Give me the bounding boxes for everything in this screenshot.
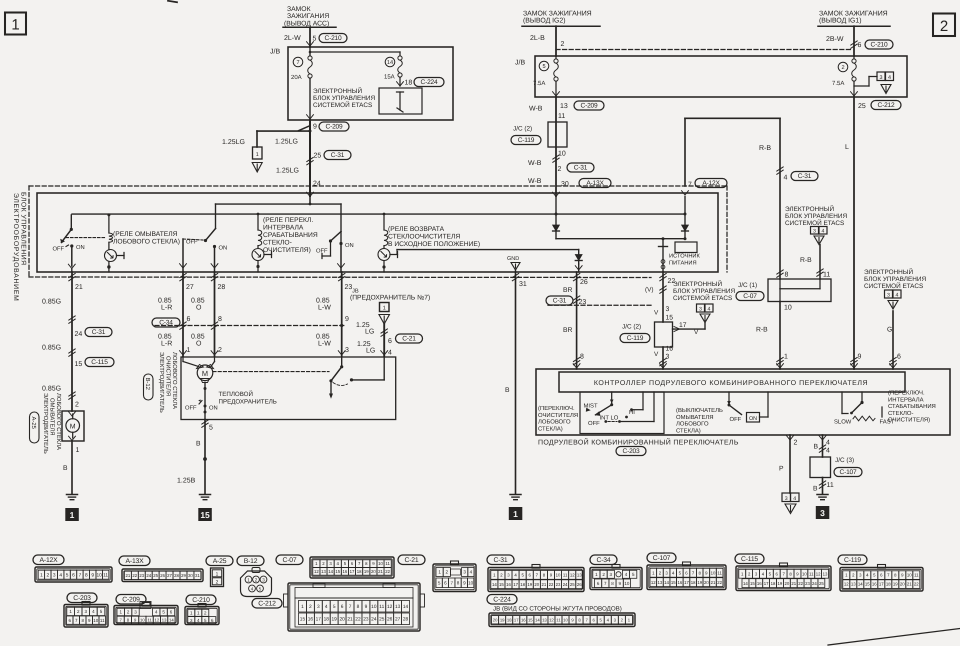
svg-text:4: 4 (888, 75, 891, 81)
svg-text:31: 31 (195, 573, 200, 578)
svg-text:8: 8 (218, 316, 222, 323)
svg-text:6: 6 (858, 42, 862, 49)
svg-text:18: 18 (324, 617, 330, 623)
svg-text:22: 22 (798, 581, 803, 586)
svg-text:C-224: C-224 (421, 79, 438, 86)
svg-text:17: 17 (679, 322, 687, 329)
svg-text:ЛОБОВОГО СТЕКЛА: ЛОБОВОГО СТЕКЛА (171, 352, 178, 409)
svg-text:25: 25 (314, 153, 322, 160)
svg-text:ЭЛЕКТРОДВИГАТЕЛЬ: ЭЛЕКТРОДВИГАТЕЛЬ (158, 352, 165, 413)
svg-text:B: B (196, 441, 201, 448)
connector C-21 (398, 555, 476, 592)
svg-text:1: 1 (187, 347, 191, 354)
svg-text:16: 16 (666, 346, 674, 353)
ETACS ground above J/C(1) (785, 205, 847, 245)
svg-text:17: 17 (879, 582, 884, 587)
connector C-119 bottom (838, 555, 923, 591)
svg-text:ТЕПЛОВОЙ: ТЕПЛОВОЙ (219, 390, 253, 398)
column switch outer box (536, 369, 950, 435)
svg-text:C-31: C-31 (574, 164, 588, 171)
svg-text:21: 21 (347, 617, 353, 623)
wire L pin 9 entry (851, 354, 862, 369)
svg-text:27: 27 (395, 617, 401, 623)
svg-text:1: 1 (76, 447, 80, 454)
svg-text:ON: ON (76, 244, 85, 251)
svg-text:6: 6 (187, 316, 191, 323)
svg-text:20: 20 (339, 617, 345, 623)
svg-text:C-224: C-224 (493, 596, 511, 603)
svg-text:23: 23 (579, 299, 587, 306)
svg-text:19: 19 (332, 617, 338, 623)
fuse 14 15A (384, 56, 402, 81)
svg-text:1: 1 (438, 570, 441, 575)
ground ref black 1 mid (509, 507, 523, 520)
svg-text:6: 6 (897, 354, 901, 361)
svg-text:O: O (196, 341, 202, 348)
svg-text:13: 13 (560, 103, 568, 110)
pin 4 connector C-31 on R-B (777, 167, 818, 182)
svg-text:4: 4 (59, 573, 62, 579)
wiper motor assembly box (181, 357, 396, 420)
svg-text:(ПЕРЕКЛЮЧ.: (ПЕРЕКЛЮЧ. (538, 405, 575, 412)
connector C-224 strip (487, 595, 635, 627)
pin 5 connector C-210 (313, 34, 348, 43)
svg-text:W-B: W-B (528, 178, 542, 185)
node ignition switch ACC header (283, 6, 336, 27)
svg-text:17: 17 (316, 617, 322, 623)
wire B washer motor to ground (63, 441, 80, 494)
junction block J/B left (270, 47, 453, 120)
svg-text:C-31: C-31 (553, 297, 567, 304)
svg-text:13: 13 (658, 580, 663, 585)
svg-text:ЗАМОК ЗАЖИГАНИЯ: ЗАМОК ЗАЖИГАНИЯ (523, 11, 592, 18)
svg-text:13: 13 (851, 582, 856, 587)
svg-text:2: 2 (309, 604, 312, 610)
svg-text:4: 4 (822, 229, 825, 235)
svg-text:(РЕЛЕ ОМЫВАТЕЛЯ: (РЕЛЕ ОМЫВАТЕЛЯ (113, 231, 178, 238)
svg-text:23: 23 (139, 573, 144, 578)
svg-text:14: 14 (858, 582, 863, 587)
svg-text:19: 19 (527, 582, 532, 587)
svg-text:ЛОБОВОГО СТЕКЛА: ЛОБОВОГО СТЕКЛА (55, 393, 62, 450)
svg-text:10: 10 (624, 581, 630, 586)
fusible link 1 (252, 147, 262, 172)
svg-text:A-13X: A-13X (586, 180, 604, 187)
svg-text:22: 22 (914, 582, 919, 587)
svg-text:J/B: J/B (515, 59, 525, 67)
svg-text:ЛОБОВОГО: ЛОБОВОГО (676, 421, 709, 428)
svg-text:C-31: C-31 (494, 557, 508, 564)
svg-text:9: 9 (91, 573, 94, 579)
ground J/C(3) chain (817, 495, 828, 500)
interval switch label (888, 390, 936, 424)
pin 18 connector C-224 (397, 77, 444, 86)
svg-text:(V): (V) (645, 287, 654, 294)
svg-text:C-209: C-209 (581, 102, 598, 109)
wire 2B-W IG1 (826, 26, 857, 56)
svg-text:18: 18 (507, 617, 512, 622)
svg-text:24: 24 (371, 617, 377, 623)
svg-text:1: 1 (247, 578, 250, 583)
svg-text:10: 10 (802, 571, 807, 576)
connector B-12 round (237, 556, 282, 608)
svg-text:26: 26 (577, 582, 582, 587)
svg-text:ЗАЖИГАНИЯ: ЗАЖИГАНИЯ (287, 13, 329, 20)
svg-text:3: 3 (317, 604, 320, 610)
wire 26 BR to controller pin 8 (546, 272, 588, 369)
svg-text:22: 22 (132, 573, 137, 578)
svg-text:L-W: L-W (318, 305, 331, 312)
svg-text:ПИТАНИЯ: ПИТАНИЯ (669, 261, 697, 267)
node ignition switch IG2 header (522, 11, 600, 27)
svg-text:11: 11 (717, 570, 722, 575)
svg-text:БЛОК УПРАВЛЕНИЯ: БЛОК УПРАВЛЕНИЯ (785, 213, 847, 220)
svg-text:10: 10 (563, 617, 568, 622)
svg-text:M: M (70, 424, 76, 431)
svg-text:13: 13 (162, 617, 167, 622)
svg-text:20: 20 (900, 582, 905, 587)
svg-text:12: 12 (816, 571, 821, 576)
svg-text:20A: 20A (291, 74, 302, 81)
svg-text:7: 7 (296, 60, 299, 66)
svg-text:16: 16 (342, 569, 347, 574)
svg-text:1: 1 (70, 510, 75, 520)
svg-text:ON: ON (345, 242, 354, 249)
svg-text:17: 17 (513, 582, 518, 587)
wiper motor M2 (183, 357, 215, 420)
wire 2L-B IG2 (530, 26, 565, 56)
svg-text:ИНТЕРВАЛА: ИНТЕРВАЛА (263, 225, 304, 232)
scan artifact diagonal line (828, 629, 960, 646)
svg-text:C-34: C-34 (159, 319, 173, 326)
svg-text:4: 4 (826, 440, 830, 447)
svg-text:C-107: C-107 (840, 469, 857, 476)
svg-text:21: 21 (75, 284, 83, 291)
svg-text:ОЧИСТИТЕЛЯ: ОЧИСТИТЕЛЯ (538, 412, 578, 419)
svg-text:24: 24 (812, 581, 817, 586)
washer motor M1 (62, 411, 84, 441)
pin 7 connector A-12X (682, 179, 727, 196)
svg-text:13: 13 (823, 571, 828, 576)
svg-text:11: 11 (379, 604, 384, 610)
svg-text:24: 24 (146, 573, 151, 578)
svg-text:ОМЫВАТЕЛЯ: ОМЫВАТЕЛЯ (676, 414, 714, 421)
svg-text:C-21: C-21 (402, 335, 416, 342)
ground ref black 1 left (65, 508, 79, 521)
op ETACS unit label left (313, 87, 375, 109)
svg-text:10: 10 (907, 573, 912, 578)
svg-text:11: 11 (914, 573, 919, 578)
svg-text:СТЕКЛА): СТЕКЛА) (676, 427, 701, 434)
svg-text:21: 21 (378, 569, 383, 574)
svg-text:A-13X: A-13X (126, 558, 145, 565)
washer switch label (676, 407, 723, 434)
svg-text:B: B (813, 486, 818, 493)
ground B wire (510, 495, 521, 500)
svg-text:0.85: 0.85 (316, 298, 330, 305)
svg-text:21: 21 (791, 581, 796, 586)
wire A-12X leg with diode D2 (682, 197, 689, 241)
svg-text:L-R: L-R (161, 341, 172, 348)
wire branch to fuse link 1 (222, 130, 312, 148)
svg-text:17: 17 (514, 617, 519, 622)
connector C-115 bottom (735, 554, 831, 591)
svg-text:6: 6 (388, 338, 392, 345)
svg-text:В ИСХОДНОЕ ПОЛОЖЕНИЕ): В ИСХОДНОЕ ПОЛОЖЕНИЕ) (388, 241, 480, 248)
fuse 7 20A (291, 47, 312, 120)
svg-text:23: 23 (363, 617, 369, 623)
svg-text:B-12: B-12 (144, 378, 151, 390)
svg-text:V: V (654, 310, 659, 317)
svg-text:C-210: C-210 (192, 597, 210, 604)
svg-text:12: 12 (651, 580, 656, 585)
svg-text:29: 29 (181, 573, 186, 578)
svg-text:16: 16 (308, 617, 314, 623)
svg-text:C-115: C-115 (741, 556, 758, 563)
svg-text:БЛОК УПРАВЛЕНИЯ: БЛОК УПРАВЛЕНИЯ (673, 288, 735, 295)
svg-text:28: 28 (174, 573, 179, 578)
svg-text:C-210: C-210 (325, 35, 342, 42)
connector A-13X (119, 556, 203, 582)
pin 2 connector C-31 mid (528, 155, 594, 173)
svg-text:C-119: C-119 (844, 557, 861, 564)
washer motor vertical label (30, 393, 63, 454)
svg-text:18: 18 (691, 580, 696, 585)
wire 21 0.85G washer motor feed (42, 272, 114, 411)
wire 5 B to ground (177, 420, 213, 495)
connector C-210 bottom (185, 595, 219, 625)
svg-text:1: 1 (513, 509, 518, 519)
svg-text:10: 10 (378, 561, 383, 566)
thermal fuse (185, 387, 277, 414)
svg-text:0.85G: 0.85G (42, 299, 61, 306)
svg-text:7: 7 (79, 573, 82, 579)
wiper mode switch MIST (580, 392, 664, 434)
svg-text:4: 4 (325, 604, 328, 610)
connector A-12X (33, 555, 112, 582)
svg-text:2L-W: 2L-W (284, 35, 301, 42)
svg-text:10: 10 (468, 580, 474, 585)
svg-text:24: 24 (75, 331, 83, 338)
svg-text:A-25: A-25 (213, 558, 227, 565)
svg-text:13: 13 (577, 573, 582, 578)
svg-text:C-107: C-107 (653, 555, 671, 562)
svg-text:0.85G: 0.85G (42, 386, 61, 393)
connector C-34 bottom (590, 555, 642, 590)
svg-text:7: 7 (450, 580, 453, 585)
svg-text:ИСТОЧНИК: ИСТОЧНИК (669, 254, 701, 260)
pin 25 connector C-212 (851, 92, 901, 110)
svg-text:14: 14 (169, 617, 174, 622)
svg-text:2: 2 (841, 65, 844, 71)
svg-text:10: 10 (140, 617, 145, 622)
svg-text:3: 3 (666, 306, 670, 313)
svg-text:OFF: OFF (588, 420, 600, 427)
svg-text:1: 1 (256, 152, 259, 158)
pin 10 label (558, 151, 566, 158)
relay intermittent switch SW2 (180, 229, 228, 273)
svg-text:1: 1 (40, 573, 43, 579)
svg-text:8: 8 (357, 604, 360, 610)
svg-text:10: 10 (371, 604, 377, 610)
svg-text:11: 11 (556, 617, 561, 622)
svg-text:R-B: R-B (756, 327, 768, 334)
svg-text:25: 25 (819, 581, 824, 586)
wire diode output bus y238.7 (556, 237, 685, 240)
svg-text:(ПЕРЕКЛЮЧ.: (ПЕРЕКЛЮЧ. (888, 390, 925, 397)
ground GND inside relay box (507, 256, 520, 272)
svg-text:14: 14 (387, 60, 393, 66)
svg-text:C-210: C-210 (871, 41, 888, 48)
wire 1.25LG lower (276, 168, 321, 188)
wire 31 B body ground (505, 272, 527, 494)
svg-text:A-25: A-25 (30, 417, 37, 430)
svg-text:СИСТЕМОЙ ETACS: СИСТЕМОЙ ETACS (673, 294, 732, 302)
svg-text:1.25LG: 1.25LG (222, 139, 245, 146)
svg-text:C-07: C-07 (283, 557, 297, 564)
ETACS ground 3-4 inside J/B (854, 72, 894, 94)
svg-text:11: 11 (385, 561, 390, 566)
svg-text:1.25B: 1.25B (177, 478, 196, 485)
svg-text:20: 20 (704, 580, 709, 585)
svg-text:27: 27 (167, 573, 172, 578)
svg-text:19: 19 (893, 582, 898, 587)
svg-text:СИСТЕМОЙ ETACS: СИСТЕМОЙ ETACS (785, 219, 844, 227)
wire 10 R-B to controller pin 1 (756, 302, 792, 370)
svg-text:14: 14 (664, 580, 669, 585)
svg-text:СТЕКЛООЧИСТИТЕЛЯ: СТЕКЛООЧИСТИТЕЛЯ (388, 234, 460, 241)
svg-text:1: 1 (11, 17, 19, 34)
svg-text:9: 9 (858, 354, 862, 361)
svg-text:ЭЛЕКТРОННЫЙ: ЭЛЕКТРОННЫЙ (785, 205, 834, 213)
svg-text:ЛОБОВОГО: ЛОБОВОГО (538, 419, 571, 426)
relay park-return coil K3 (378, 213, 398, 272)
wiper park switch (329, 357, 384, 399)
wire branch to fuse 14 (309, 51, 400, 56)
svg-text:ON: ON (209, 405, 218, 412)
svg-text:ПРЕДОХРАНИТЕЛЬ: ПРЕДОХРАНИТЕЛЬ (219, 399, 277, 406)
svg-text:20: 20 (493, 617, 498, 622)
svg-text:M: M (202, 369, 208, 378)
svg-text:L: L (845, 144, 849, 151)
svg-text:15: 15 (335, 569, 340, 574)
svg-text:5: 5 (333, 604, 336, 610)
relay park-return switch SW3 (316, 232, 354, 273)
svg-text:КОНТРОЛЛЕР ПОДРУЛЕВОГО КОМБИНИ: КОНТРОЛЛЕР ПОДРУЛЕВОГО КОМБИНИРОВАННОГО … (594, 380, 868, 387)
connector C-07 (276, 555, 394, 578)
svg-text:31: 31 (519, 281, 527, 288)
svg-text:4: 4 (793, 496, 796, 502)
svg-text:9: 9 (365, 604, 368, 610)
svg-text:20: 20 (534, 582, 539, 587)
svg-text:BR: BR (563, 327, 573, 334)
svg-text:22: 22 (355, 617, 361, 623)
wire R-B inverted U (685, 118, 780, 279)
svg-text:3: 3 (463, 570, 466, 575)
svg-text:C-119: C-119 (627, 335, 644, 342)
node ignition switch IG1 header (818, 11, 890, 27)
wiper motor dashed link (213, 371, 329, 373)
svg-text:3: 3 (813, 229, 816, 235)
svg-text:(ВЫВОД IG1): (ВЫВОД IG1) (819, 18, 862, 25)
svg-text:15: 15 (300, 617, 306, 623)
svg-text:(РЕЛЕ ВОЗВРАТА: (РЕЛЕ ВОЗВРАТА (388, 226, 445, 233)
connector C-34 dashed crossing (152, 318, 345, 327)
relay washer coil K1 (105, 213, 125, 272)
svg-text:20: 20 (784, 581, 789, 586)
svg-text:ЭЛЕКТРОННЫЙ: ЭЛЕКТРОННЫЙ (313, 87, 362, 95)
svg-text:15: 15 (666, 315, 674, 322)
svg-text:10: 10 (556, 573, 561, 578)
wire 2 P to ground (779, 435, 799, 514)
svg-text:2: 2 (558, 166, 562, 173)
svg-text:14: 14 (743, 581, 748, 586)
svg-text:7: 7 (688, 182, 692, 189)
svg-text:2: 2 (218, 347, 222, 354)
svg-text:13: 13 (321, 569, 326, 574)
pin 9 connector C-209 (307, 115, 349, 131)
svg-text:B: B (505, 387, 510, 394)
svg-text:1: 1 (784, 354, 788, 361)
svg-text:11: 11 (147, 617, 152, 622)
relay intermittent label (263, 217, 318, 254)
svg-text:25: 25 (570, 582, 575, 587)
svg-text:C-31: C-31 (92, 329, 106, 336)
svg-text:C-209: C-209 (326, 123, 343, 130)
svg-text:J/C (2): J/C (2) (513, 126, 532, 133)
svg-text:2: 2 (940, 18, 948, 35)
svg-text:22: 22 (549, 582, 554, 587)
svg-text:19: 19 (500, 617, 505, 622)
svg-text:6: 6 (72, 573, 75, 579)
washer switch (727, 392, 768, 423)
svg-text:C-31: C-31 (331, 152, 345, 159)
wire pin 3 to controller (654, 346, 673, 370)
svg-text:19: 19 (697, 580, 702, 585)
svg-text:16: 16 (677, 580, 682, 585)
svg-text:10: 10 (558, 151, 566, 158)
svg-text:ЈВ (ВИД СО СТОРОНЫ ЖГУТА ПРОВО: ЈВ (ВИД СО СТОРОНЫ ЖГУТА ПРОВОДОВ) (493, 606, 622, 613)
svg-text:15A: 15A (384, 74, 395, 81)
svg-text:16: 16 (506, 582, 511, 587)
connector C-31 bottom (487, 555, 584, 592)
svg-text:B: B (814, 444, 819, 451)
svg-text:19: 19 (364, 569, 369, 574)
relay intermittent coil K2 (252, 213, 272, 272)
svg-text:P: P (779, 466, 784, 473)
svg-text:23: 23 (556, 582, 561, 587)
svg-text:15: 15 (750, 581, 755, 586)
svg-text:4: 4 (251, 587, 254, 592)
wire G to controller pin 6 (887, 311, 901, 369)
svg-text:2: 2 (561, 41, 565, 48)
svg-text:17: 17 (764, 581, 769, 586)
svg-text:3: 3 (880, 75, 883, 81)
svg-text:MIST: MIST (584, 403, 598, 410)
svg-text:3: 3 (785, 496, 788, 502)
svg-text:11: 11 (103, 573, 108, 579)
svg-text:10: 10 (97, 573, 103, 579)
svg-text:W-B: W-B (528, 160, 542, 167)
svg-text:16: 16 (872, 582, 877, 587)
svg-text:7.5A: 7.5A (533, 80, 545, 87)
svg-text:(РЕЛЕ ПЕРЕКЛ.: (РЕЛЕ ПЕРЕКЛ. (263, 217, 313, 224)
svg-text:7: 7 (349, 604, 352, 610)
svg-text:5: 5 (438, 580, 441, 585)
svg-text:12: 12 (844, 582, 849, 587)
svg-text:16: 16 (521, 617, 526, 622)
svg-text:4: 4 (896, 293, 899, 299)
